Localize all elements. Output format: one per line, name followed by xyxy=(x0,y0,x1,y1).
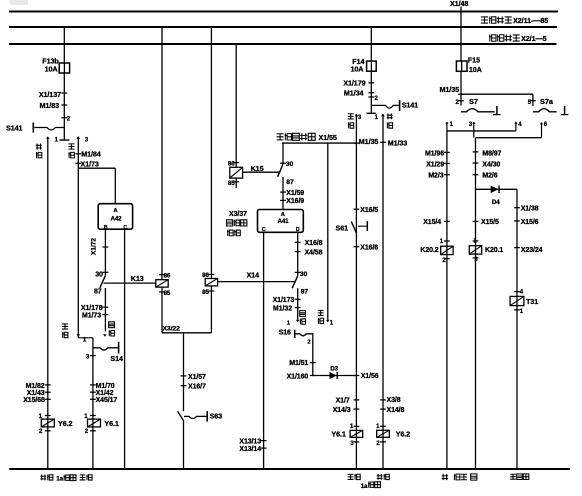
label 总停开关X2/11——85 xyxy=(481,17,488,23)
terminal X1/38 xyxy=(514,207,520,209)
label 手动 (vertical) xyxy=(62,324,68,329)
pin 1 Y6.2 xyxy=(380,425,386,427)
pin 2 K20.2 xyxy=(444,258,450,260)
switch S63 xyxy=(178,411,184,421)
svg-text:X16/9: X16/9 xyxy=(286,198,304,205)
svg-text:X1/73: X1/73 xyxy=(81,159,99,168)
svg-text:X14/8: X14/8 xyxy=(387,407,405,414)
wire bus2 to fuse F14 xyxy=(370,27,372,61)
svg-text:X1/38: X1/38 xyxy=(521,205,539,212)
svg-text:X1/56: X1/56 xyxy=(361,373,379,380)
wire bus2 down to K14 coil xyxy=(210,27,212,279)
svg-text:M1/82: M1/82 xyxy=(26,383,45,390)
svg-text:X1/7: X1/7 xyxy=(336,397,350,404)
label 反转 (vertical) xyxy=(387,113,393,119)
terminal X45/17 xyxy=(90,398,96,400)
contact arrow (manual) xyxy=(326,320,330,323)
node M1/35 xyxy=(354,142,360,144)
svg-text:M1/51: M1/51 xyxy=(289,360,308,367)
svg-text:M1/35: M1/35 xyxy=(440,85,460,94)
bottom bus (ground/return) xyxy=(9,468,570,470)
svg-text:X15/5: X15/5 xyxy=(481,219,499,226)
pin 1 Y6.2 xyxy=(45,415,51,417)
bus line 2 xyxy=(9,26,557,28)
pin 2 Y6.2 xyxy=(380,441,386,443)
svg-text:D4: D4 xyxy=(492,199,500,206)
bottom labels 反转 1a抱闸 正转 xyxy=(40,475,46,481)
svg-text:X1/57: X1/57 xyxy=(188,374,206,381)
svg-text:X16/6: X16/6 xyxy=(360,245,378,252)
terminal M1/73 xyxy=(103,314,109,316)
wire rail A down to K20.2 and bottom xyxy=(446,131,448,469)
terminal M1/34 xyxy=(368,92,374,94)
terminal X1/179 xyxy=(368,82,374,84)
terminal 3 xyxy=(90,355,96,357)
wire K13 to coil xyxy=(104,282,156,284)
terminal X15/6 xyxy=(514,220,520,222)
label 接地 xyxy=(227,230,233,236)
wire A41-C down to bottom bus xyxy=(263,232,265,469)
contact arrow 3 (forward) xyxy=(76,136,80,139)
scan smudge xyxy=(10,0,28,5)
terminal M1/51 xyxy=(310,362,316,364)
wire bus2 down to K13 coil xyxy=(161,27,163,280)
contact arrow (manual) xyxy=(76,334,80,337)
svg-text:30: 30 xyxy=(95,271,103,278)
relay coil K15 xyxy=(230,167,243,178)
terminal X16/7 xyxy=(181,385,187,387)
svg-text:X4/30: X4/30 xyxy=(482,162,500,169)
svg-text:S141: S141 xyxy=(402,101,418,110)
svg-text:M1/35: M1/35 xyxy=(359,137,379,146)
label 正转 (vertical) xyxy=(348,114,354,119)
bus line 1 (+supply X1/48) xyxy=(9,11,558,13)
pin 4 T31 xyxy=(514,291,520,293)
label 手动 (vertical) xyxy=(318,310,324,315)
svg-text:X1/160: X1/160 xyxy=(287,373,309,380)
svg-text:X3/37: X3/37 xyxy=(229,211,247,218)
node X1/56 xyxy=(354,375,360,377)
wire reverse branch down to Y6.2 xyxy=(47,137,49,469)
svg-text:T31: T31 xyxy=(526,297,538,306)
wire S16 down xyxy=(312,338,314,376)
terminal X15/4 xyxy=(444,220,450,222)
svg-text:1a: 1a xyxy=(56,476,63,483)
pin 3 Y6.1 xyxy=(354,441,360,443)
wire A42-B down xyxy=(104,229,106,275)
svg-text:D3: D3 xyxy=(330,367,338,373)
contact blade (30-87) xyxy=(100,276,106,288)
svg-text:M8/97: M8/97 xyxy=(482,150,501,157)
bus line 3 xyxy=(9,43,557,45)
wire X1/55 down to contact 30 xyxy=(282,143,284,164)
terminal 85 xyxy=(233,181,239,183)
terminal X1/72 xyxy=(103,246,109,248)
label 正转 (vertical) xyxy=(68,144,74,149)
wire S63 to bottom bus xyxy=(183,421,185,469)
terminal M8/97 xyxy=(473,151,479,153)
svg-text:X1/72: X1/72 xyxy=(91,238,98,255)
node 2 xyxy=(368,96,374,98)
svg-text:F15: F15 xyxy=(468,56,480,65)
svg-text:X1/59: X1/59 xyxy=(286,190,304,197)
svg-text:X13/14: X13/14 xyxy=(239,446,261,453)
svg-text:S63: S63 xyxy=(210,412,223,421)
svg-text:M1/73: M1/73 xyxy=(82,313,101,320)
wire X1/48 down thru buses to F15 xyxy=(460,7,462,62)
svg-text:C: C xyxy=(262,227,266,233)
svg-text:X1/48: X1/48 xyxy=(450,0,468,8)
relay coil K14 xyxy=(205,279,217,286)
svg-text:M2/3: M2/3 xyxy=(428,173,443,180)
rail B (S7a out) xyxy=(476,137,542,139)
svg-text:A42: A42 xyxy=(110,216,122,223)
label 首进器 xyxy=(227,220,233,226)
module A42 xyxy=(98,204,132,230)
wire forward branch down xyxy=(77,137,79,338)
relay coil K20.1 xyxy=(469,246,481,254)
svg-text:30: 30 xyxy=(300,271,308,278)
svg-text:Y6.1: Y6.1 xyxy=(104,419,118,428)
wire to X1/56 node xyxy=(313,375,357,377)
wire X1/55 feed xyxy=(282,142,356,144)
terminal X1/43 xyxy=(45,391,51,393)
terminal X14/8 xyxy=(380,408,386,410)
svg-text:M1/83: M1/83 xyxy=(40,101,60,110)
svg-text:X1/43: X1/43 xyxy=(27,390,45,397)
svg-text:K13: K13 xyxy=(131,274,144,283)
wire down into A42 xyxy=(114,168,116,204)
svg-text:Y6.1: Y6.1 xyxy=(331,430,345,439)
wire 87 down xyxy=(104,288,106,331)
wire forward branch down to Y6.1 xyxy=(355,114,357,469)
svg-text:Y6.2: Y6.2 xyxy=(396,430,410,439)
wire diode branch down to T31 and bottom xyxy=(516,189,518,469)
wire F13b down xyxy=(63,73,65,140)
svg-text:D: D xyxy=(296,227,300,233)
terminal X1/7 xyxy=(354,399,360,401)
svg-text:1: 1 xyxy=(287,320,290,326)
label 自动 (vertical) xyxy=(109,322,115,328)
svg-text:85: 85 xyxy=(164,290,171,297)
wire K14 coil to X3/22 bar xyxy=(210,286,212,333)
terminal X1/178 xyxy=(103,306,109,308)
wire K13 coil to X3/22 bar xyxy=(161,287,163,333)
svg-text:10A: 10A xyxy=(469,65,482,74)
svg-text:87: 87 xyxy=(301,288,309,295)
bottom label 反转 xyxy=(377,474,383,480)
contact arrow (auto) xyxy=(296,320,300,323)
solenoid Y6.1 xyxy=(88,419,101,427)
wire down to Y6.1 xyxy=(92,338,94,469)
svg-text:10A: 10A xyxy=(45,64,58,73)
terminal X23/24 xyxy=(514,247,520,249)
svg-text:85: 85 xyxy=(202,289,209,296)
bottom labels 正转 1a抱闸 xyxy=(348,474,354,479)
terminal X13/13 xyxy=(261,440,267,442)
terminal M1/84 xyxy=(75,153,81,155)
wire X14 to contact xyxy=(218,281,295,283)
svg-text:X4/58: X4/58 xyxy=(305,250,323,257)
terminal X4/30 xyxy=(473,162,479,164)
junction wire xyxy=(78,337,93,339)
stub below K15 xyxy=(235,178,237,188)
terminal X1/42 xyxy=(90,391,96,393)
wire bus2 to fuse F13b xyxy=(63,27,65,63)
svg-text:X3/8: X3/8 xyxy=(387,397,401,404)
svg-text:S16: S16 xyxy=(279,330,291,337)
wire reverse branch down to Y6.2 xyxy=(382,114,384,469)
terminal M1/96 xyxy=(444,151,450,153)
node M1/33 xyxy=(380,141,386,143)
svg-text:X16/8: X16/8 xyxy=(305,240,323,247)
rail A (S7 out) xyxy=(447,130,516,132)
fuse F15 10A xyxy=(456,61,467,71)
svg-text:X15/4: X15/4 xyxy=(423,219,441,226)
svg-text:X1/179: X1/179 xyxy=(343,79,365,88)
contact arrow 1 (reverse) xyxy=(46,136,50,139)
pin 1 Y6.1 xyxy=(354,425,360,427)
terminal 85 xyxy=(209,290,215,292)
bottom labels 梯子 合 xyxy=(454,474,460,480)
solenoid T31 xyxy=(510,296,524,305)
terminal X1/29 xyxy=(444,162,450,164)
terminal M1/70 xyxy=(90,384,96,386)
bottom label 先导阀 xyxy=(510,474,516,479)
svg-text:M1/70: M1/70 xyxy=(96,383,115,390)
svg-text:X15/6: X15/6 xyxy=(521,219,539,226)
wire F14 down xyxy=(370,71,372,113)
svg-text:86: 86 xyxy=(228,160,235,167)
svg-text:X1/29: X1/29 xyxy=(426,161,444,168)
terminal M2/3 xyxy=(444,174,450,176)
svg-text:M1/34: M1/34 xyxy=(344,89,364,98)
wire X1/55 manual branch down xyxy=(327,143,329,320)
terminal X15/5 xyxy=(473,220,479,222)
svg-text:X16/5: X16/5 xyxy=(360,207,378,214)
svg-text:S7a: S7a xyxy=(540,97,554,106)
terminal X1/73 xyxy=(75,162,81,164)
fuse F14 10A xyxy=(367,61,377,71)
contact blade xyxy=(278,164,283,177)
svg-text:X2/11-—85: X2/11-—85 xyxy=(513,16,548,25)
svg-text:M1/84: M1/84 xyxy=(81,150,101,159)
terminal 86 xyxy=(209,273,215,275)
solenoid Y6.1 (mid) xyxy=(350,430,363,437)
terminal X16/8 xyxy=(295,241,301,243)
label 自动 (vertical) xyxy=(300,311,306,317)
terminal X16/5 xyxy=(354,208,360,210)
terminal X1/173 xyxy=(295,298,301,300)
bar X3/22 xyxy=(162,332,211,334)
terminal X16/6 xyxy=(354,246,360,248)
pin 2 Y6.1 xyxy=(90,430,96,432)
svg-text:86: 86 xyxy=(164,272,171,279)
terminal M1/32 xyxy=(295,307,301,309)
diode D4 xyxy=(491,186,499,194)
svg-text:S14: S14 xyxy=(110,354,123,363)
wire A42-C down to bottom bus xyxy=(124,229,126,469)
pin 2 Y6.2 xyxy=(45,430,51,432)
fuse F13b 10A xyxy=(59,63,69,73)
T-end of F14 wire xyxy=(367,112,376,114)
terminal X4/58 xyxy=(295,251,301,253)
wire F15 down xyxy=(460,71,462,105)
svg-text:X2/1—5: X2/1—5 xyxy=(521,34,546,43)
wire rail B down to K20.1 and bottom xyxy=(475,138,477,469)
svg-text:X1/55: X1/55 xyxy=(319,133,337,142)
terminal X1/137 xyxy=(61,92,67,94)
wire K15 to contact xyxy=(243,171,281,173)
wire down to S7a xyxy=(532,94,534,106)
terminal M1/82 xyxy=(45,384,51,386)
terminal X3/8 xyxy=(380,399,386,401)
svg-text:M1/32: M1/32 xyxy=(273,306,292,313)
pin 1 Y6.1 xyxy=(90,415,96,417)
svg-text:X14: X14 xyxy=(247,271,260,280)
contact arrow 3 (forward) xyxy=(355,114,359,117)
wire to A41 xyxy=(282,177,284,210)
svg-text:X45/17: X45/17 xyxy=(96,397,118,404)
contact blade (X14) xyxy=(292,276,298,288)
terminal 85 xyxy=(159,291,165,293)
terminal 5 S7a xyxy=(530,100,536,102)
T-end of F13b wire xyxy=(60,139,70,141)
pin 1 T31 xyxy=(514,309,520,311)
svg-text:87: 87 xyxy=(286,179,294,186)
wire bus3 down to K15 coil xyxy=(235,44,237,168)
pin 3 K20.1 xyxy=(473,257,479,259)
terminal X1/57 xyxy=(181,375,187,377)
terminal X14/3 xyxy=(354,408,360,410)
svg-text:M1/96: M1/96 xyxy=(425,150,444,157)
switch S14 xyxy=(93,348,118,350)
svg-text:K15: K15 xyxy=(251,164,264,173)
wire diode branch xyxy=(476,188,518,190)
node 2 xyxy=(61,117,67,119)
svg-text:X13/13: X13/13 xyxy=(239,439,261,446)
wire X3/22 stem down xyxy=(183,333,185,411)
svg-text:X23/24: X23/24 xyxy=(521,247,543,254)
terminal 2 S7 xyxy=(458,100,464,102)
terminal 86 xyxy=(159,274,165,276)
relay coil K20.2 xyxy=(441,246,453,254)
bottom label 开 xyxy=(442,474,448,480)
svg-text:M1/33: M1/33 xyxy=(388,138,408,147)
svg-text:X1/42: X1/42 xyxy=(96,390,114,397)
terminal M2/6 xyxy=(473,174,479,176)
svg-text:X15/68: X15/68 xyxy=(23,397,45,404)
svg-text:10A: 10A xyxy=(351,65,364,74)
solenoid Y6.2 xyxy=(41,419,54,427)
svg-text:X1/178: X1/178 xyxy=(81,305,103,312)
svg-text:S61: S61 xyxy=(336,223,349,232)
contact arrow 1 (reverse) xyxy=(381,114,385,117)
svg-text:85: 85 xyxy=(228,180,235,187)
relay coil K13 xyxy=(156,280,168,287)
svg-text:M2/6: M2/6 xyxy=(482,173,497,180)
terminal 86 xyxy=(233,162,239,164)
svg-text:Y6.2: Y6.2 xyxy=(58,419,72,428)
svg-text:2: 2 xyxy=(307,340,310,346)
svg-text:K20.1: K20.1 xyxy=(485,247,503,254)
solenoid Y6.2 (mid) xyxy=(377,430,390,437)
svg-text:87: 87 xyxy=(94,289,102,296)
svg-text:S141: S141 xyxy=(6,123,22,132)
label 反转 (vertical) xyxy=(36,144,42,150)
terminal X13/14 xyxy=(261,447,267,449)
label 制动开关X2/1——5 xyxy=(489,35,496,42)
terminal M1/83 xyxy=(61,104,67,106)
svg-text:X3/22: X3/22 xyxy=(163,325,181,332)
contact arrow (auto) xyxy=(103,334,107,337)
svg-text:X1/173: X1/173 xyxy=(273,297,295,304)
module A41 xyxy=(258,210,304,233)
svg-text:X1/137: X1/137 xyxy=(39,90,61,99)
svg-text:K20.2: K20.2 xyxy=(420,247,438,254)
svg-text:1a: 1a xyxy=(361,483,368,490)
terminal X15/68 xyxy=(45,398,51,400)
svg-text:X14/3: X14/3 xyxy=(333,407,351,414)
pin 1 K20.1 xyxy=(473,240,479,242)
wire to S7a branch xyxy=(461,93,533,95)
wire A41-D down xyxy=(297,232,299,275)
wire X1/73 to A42 xyxy=(78,167,115,169)
svg-text:X16/7: X16/7 xyxy=(188,384,206,391)
terminal X1/59 xyxy=(280,191,286,193)
svg-text:30: 30 xyxy=(286,161,294,168)
label 手接盒供电 X1/55 xyxy=(277,134,284,140)
switch S141 (right) xyxy=(371,105,399,108)
contact stubs 1/3/4/6 xyxy=(446,122,448,131)
pin 1 K20.2 xyxy=(444,240,450,242)
terminal X1/160 xyxy=(310,375,316,377)
svg-text:S7: S7 xyxy=(469,97,478,106)
diode D3 xyxy=(330,372,337,379)
wire 87 down xyxy=(297,288,299,319)
terminal X16/9 xyxy=(280,199,286,201)
svg-text:A41: A41 xyxy=(277,218,289,225)
